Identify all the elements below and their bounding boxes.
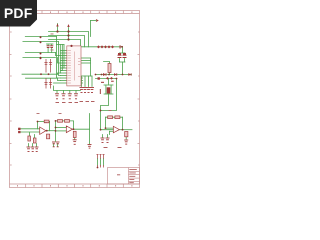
svg-text:PDF: PDF [4, 5, 33, 21]
